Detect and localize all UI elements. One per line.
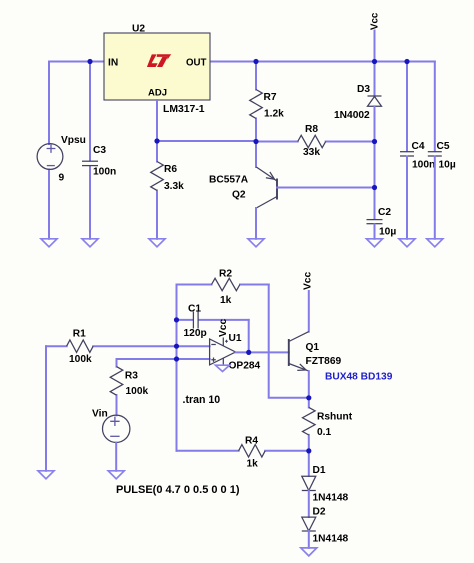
svg-text:33k: 33k	[303, 147, 320, 158]
node Rshunt/R4/D1	[306, 448, 311, 453]
svg-text:U2: U2	[132, 24, 145, 35]
svg-text:R3: R3	[125, 370, 138, 381]
svg-text:D1: D1	[313, 465, 326, 476]
capacitor C4	[400, 62, 435, 239]
capacitor C3	[82, 62, 116, 239]
LT logo	[147, 54, 171, 67]
wire plus input line	[117, 358, 210, 360]
ground (C3)	[82, 239, 98, 247]
wire ADJ pin down	[156, 100, 158, 141]
Vcc flag top	[370, 12, 381, 61]
svg-text:FZT869: FZT869	[306, 356, 342, 367]
node rail/Vcc/D3	[372, 59, 377, 64]
svg-text:Q1: Q1	[306, 342, 320, 353]
svg-text:1N4148: 1N4148	[313, 493, 349, 504]
transistor Q2 BC557A	[209, 142, 375, 239]
resistor R4	[177, 436, 309, 470]
ground (op-amp)	[216, 365, 230, 371]
node rail/R7	[253, 59, 258, 64]
svg-text:10µ: 10µ	[379, 227, 396, 238]
svg-text:100n: 100n	[93, 167, 116, 178]
node inverting line	[174, 344, 179, 349]
svg-text:IN: IN	[108, 57, 118, 68]
node ADJ	[154, 138, 159, 143]
svg-text:1N4148: 1N4148	[313, 534, 349, 545]
svg-text:PULSE(0 4.7 0 0.5 0 0 1): PULSE(0 4.7 0 0.5 0 0 1)	[116, 484, 240, 496]
regulator U2 LM317-1 body	[104, 24, 210, 116]
resistor R3	[110, 359, 148, 415]
node C1/feedback	[174, 317, 179, 322]
svg-text:Vcc: Vcc	[302, 272, 313, 290]
wire C1 right drop to output	[248, 320, 250, 353]
ground (C4)	[399, 239, 415, 247]
svg-text:1k: 1k	[247, 459, 259, 470]
node Q2 base	[372, 185, 377, 190]
node R8/D3	[372, 139, 377, 144]
node non-inverting line	[174, 356, 179, 361]
svg-text:10µ: 10µ	[439, 160, 456, 171]
svg-text:OP284: OP284	[229, 360, 261, 371]
svg-text:100k: 100k	[126, 386, 149, 397]
ground (Vpsu)	[41, 239, 57, 247]
svg-text:C3: C3	[93, 145, 106, 156]
svg-text:Vcc: Vcc	[370, 12, 381, 30]
resistor R7	[250, 62, 284, 142]
svg-text:100k: 100k	[69, 354, 92, 365]
ground (Vin)	[108, 471, 124, 479]
voltage source Vin	[92, 408, 240, 496]
svg-text:U1: U1	[229, 333, 242, 344]
capacitor C1	[177, 304, 249, 339]
svg-text:1N4002: 1N4002	[334, 110, 370, 121]
svg-text:ADJ: ADJ	[148, 88, 167, 99]
resistor Rshunt	[302, 398, 352, 451]
ground (C5)	[427, 239, 443, 247]
svg-text:1k: 1k	[220, 295, 232, 306]
node R7/R8/Q2	[253, 139, 258, 144]
wire main rail right (OUT pin to C5 corner)	[210, 61, 435, 63]
svg-text:120p: 120p	[184, 328, 207, 339]
Vcc flag bottom	[302, 272, 313, 332]
transistor Q1 FZT869	[289, 332, 393, 398]
svg-text:C4: C4	[412, 141, 425, 152]
resistor R1	[46, 329, 210, 365]
diode D1 1N4148	[302, 451, 349, 517]
svg-text:R1: R1	[73, 329, 86, 340]
svg-text:100n: 100n	[412, 160, 435, 171]
ground (C2)	[367, 239, 383, 247]
wire R1 left drop	[45, 346, 47, 471]
resistor R6	[151, 141, 184, 239]
svg-text:R7: R7	[264, 92, 277, 103]
svg-text:R8: R8	[305, 124, 318, 135]
svg-text:Vpsu: Vpsu	[61, 135, 86, 146]
ground (R1)	[38, 471, 54, 479]
node rail/C3	[87, 59, 92, 64]
svg-text:D3: D3	[357, 84, 370, 95]
svg-text:R4: R4	[245, 436, 258, 447]
wire ADJ horizontal	[157, 140, 256, 142]
svg-text:LM317-1: LM317-1	[163, 104, 205, 115]
svg-text:Q2: Q2	[232, 190, 246, 201]
svg-text:9: 9	[59, 173, 65, 184]
svg-text:C1: C1	[188, 304, 201, 315]
svg-text:BC557A: BC557A	[209, 175, 249, 186]
wire R2 left leg	[176, 285, 178, 451]
diode D3 1N4002	[334, 62, 382, 142]
capacitor C2	[367, 207, 397, 239]
wire main rail left (Vpsu to IN pin)	[49, 61, 104, 63]
svg-text:.tran 10: .tran 10	[183, 394, 221, 406]
capacitor C5	[428, 62, 456, 239]
wire op-amp output	[236, 351, 289, 353]
svg-text:C5: C5	[437, 141, 450, 152]
svg-text:1.2k: 1.2k	[264, 109, 284, 120]
wire R2 right leg down to emitter node	[269, 285, 309, 398]
resistor R2	[177, 269, 269, 307]
svg-text:D2: D2	[313, 506, 326, 517]
node output	[246, 350, 251, 355]
svg-text:OUT: OUT	[186, 57, 207, 68]
svg-text:R2: R2	[219, 269, 232, 280]
ground (Q2 collector)	[248, 239, 264, 247]
svg-text:Vin: Vin	[92, 408, 108, 419]
voltage source Vpsu	[37, 62, 86, 239]
op-amp U1 OP284	[210, 319, 261, 372]
svg-text:Vcc: Vcc	[218, 319, 229, 337]
ground (D2)	[301, 548, 317, 556]
svg-text:0.1: 0.1	[317, 427, 331, 438]
svg-text:C2: C2	[378, 207, 391, 218]
svg-text:Rshunt: Rshunt	[317, 411, 353, 422]
svg-text:R6: R6	[164, 164, 177, 175]
wire D3 node down to C2	[374, 142, 376, 219]
svg-text:3.3k: 3.3k	[164, 181, 184, 192]
node rail/C4	[404, 59, 409, 64]
diode D2 1N4148	[302, 506, 349, 548]
ground (R6)	[149, 239, 165, 247]
node emitter/R2	[306, 395, 311, 400]
svg-text:BUX48 BD139: BUX48 BD139	[325, 371, 393, 382]
resistor R8	[256, 124, 375, 158]
